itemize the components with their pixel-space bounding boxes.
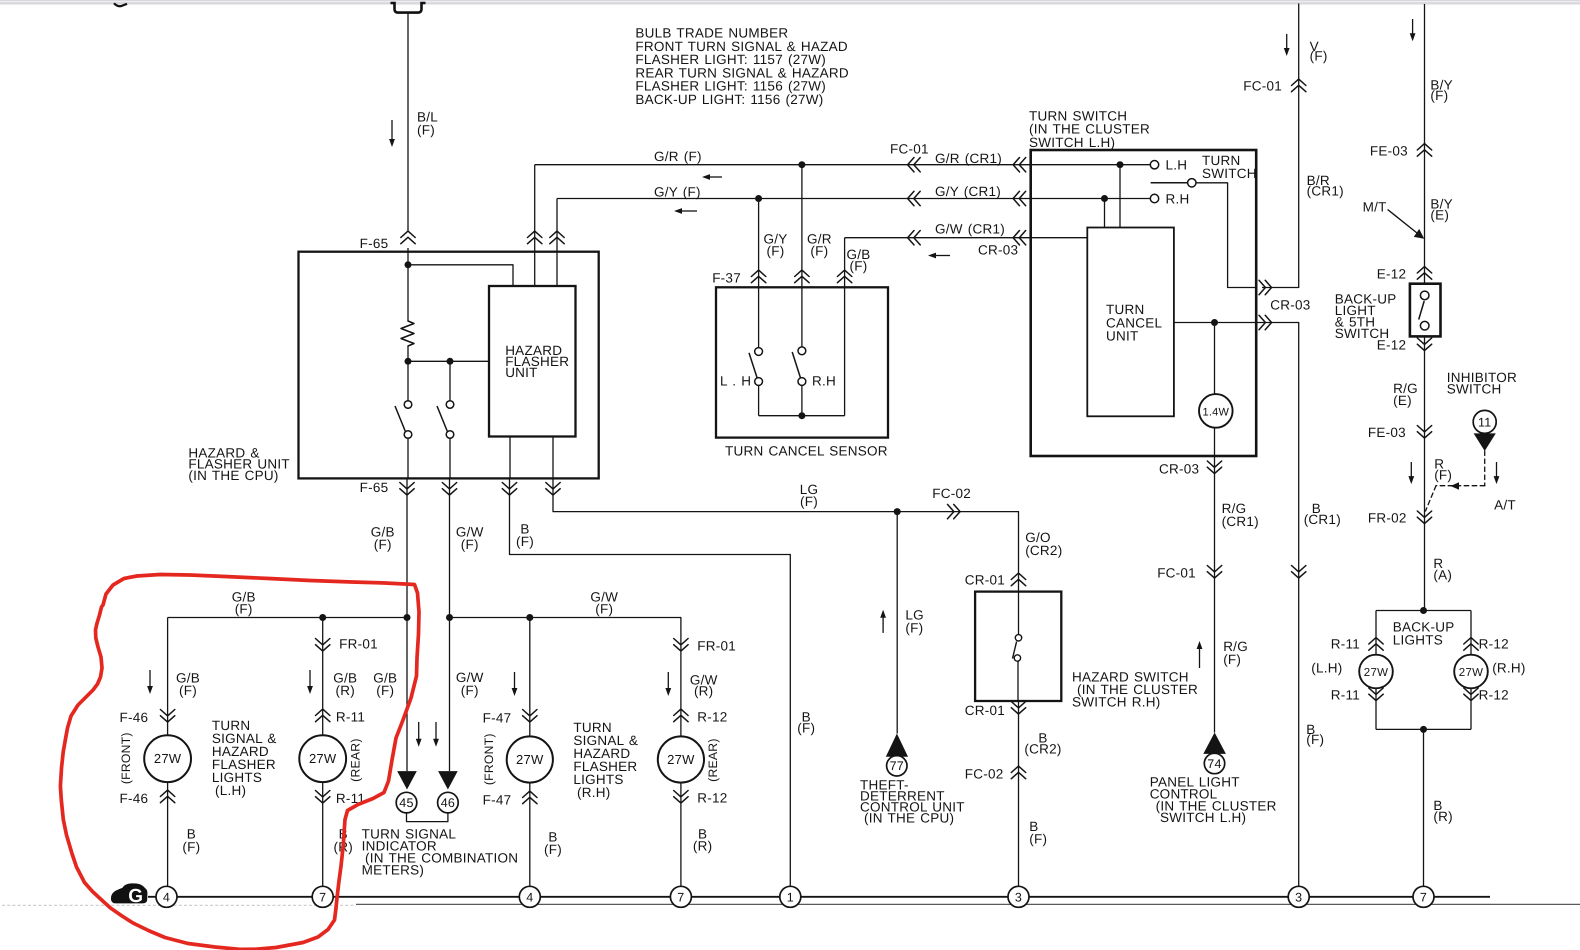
svg-text:(CR2): (CR2) (1025, 543, 1062, 558)
svg-text:F-46: F-46 (120, 791, 149, 806)
wire G/B up inside sensor (844, 287, 846, 415)
svg-text:(A): (A) (1433, 568, 1452, 583)
entry chevrons into turn switch on G/R (1013, 158, 1019, 172)
wire front R.H to ground (529, 783, 531, 887)
inhibitor triangle (1474, 433, 1496, 451)
wire front R.H light drop (529, 618, 531, 737)
flow arrows at inhibitor (1410, 462, 1412, 477)
stray mark top left (114, 3, 127, 6)
junction dot below resistor (405, 358, 412, 365)
svg-text:(F): (F) (417, 123, 435, 138)
connector chevrons R-12 backup top (1464, 638, 1478, 644)
connector chevrons R-11 below bulb (316, 791, 330, 797)
connector chevrons F-65 bottom LG (546, 483, 560, 489)
wire rear L.H light drop (322, 618, 324, 736)
svg-text:74: 74 (1207, 757, 1221, 771)
svg-text:(IN THE CPU): (IN THE CPU) (864, 811, 954, 826)
sensor common wire (759, 415, 845, 417)
wire G/Y drop to hazard flasher unit (556, 199, 558, 287)
flow arrow down rear L.H (309, 670, 311, 687)
turn switch lever (1151, 182, 1188, 184)
svg-text:F-47: F-47 (483, 710, 512, 725)
junction dot G/R to F-37 branch (798, 161, 805, 168)
svg-text:1: 1 (787, 890, 794, 904)
svg-text:(F): (F) (810, 244, 828, 259)
svg-text:UNIT: UNIT (505, 365, 538, 380)
svg-text:TURN CANCEL SENSOR: TURN CANCEL SENSOR (725, 443, 888, 458)
wire G/W (F) down from hazard unit (449, 478, 451, 617)
switch R.H in turn cancel sensor (801, 287, 803, 347)
svg-text:(F): (F) (516, 534, 534, 549)
connector chevrons F-65 on G/Y drop (550, 231, 564, 237)
turn cancel sensor box (716, 287, 888, 437)
svg-text:(E): (E) (1393, 393, 1412, 408)
bulb 1.4W in turn switch (1214, 323, 1216, 395)
flow arrow on B/L wire (391, 120, 393, 140)
junction dot back-up bottom (1420, 726, 1427, 733)
svg-text:(CR2): (CR2) (1024, 742, 1061, 757)
bulb back-up R.H 27W (1454, 655, 1488, 689)
wire back-up L.H drop (1375, 611, 1377, 655)
svg-text:F-65: F-65 (360, 480, 389, 495)
svg-text:27W: 27W (309, 751, 337, 766)
svg-text:(CR1): (CR1) (1304, 512, 1341, 527)
entry chevrons into turn switch on G/Y (1013, 191, 1019, 205)
svg-text:(R): (R) (336, 683, 356, 698)
page bottom hairline (2, 904, 356, 906)
connector chevrons R-11 above bulb (316, 709, 330, 715)
wire G/Y drop to turn cancel sensor (758, 199, 760, 288)
svg-text:G/R (F): G/R (F) (654, 149, 702, 164)
wire B (R) to ground 7 right (1423, 729, 1425, 886)
svg-text:(FRONT): (FRONT) (482, 733, 496, 785)
hazard flasher unit inner box (489, 286, 576, 437)
svg-text:77: 77 (890, 759, 904, 773)
junction dot G/W at front R.H drop (526, 614, 533, 621)
connector chevrons on B (CR1) (1292, 566, 1306, 572)
svg-text:F-47: F-47 (483, 792, 512, 807)
body ground icon G (111, 883, 148, 903)
inhibitor switch circle 11 (1473, 410, 1496, 433)
svg-text:27W: 27W (1364, 667, 1388, 679)
junction dot LG branch (894, 508, 901, 515)
flow arrow down front L.H (149, 670, 151, 687)
ground connector 3 right (1288, 886, 1309, 907)
svg-text:CR-01: CR-01 (965, 572, 1005, 587)
connector chevrons FC-02 on LG (948, 504, 954, 518)
svg-text:(F): (F) (374, 537, 392, 552)
svg-text:(R.H): (R.H) (1492, 661, 1526, 676)
junction dot at switch 2 top (447, 358, 454, 365)
wire G/R drop to turn cancel sensor (801, 165, 803, 288)
R.H contact circle (1150, 194, 1158, 202)
svg-text:UNIT: UNIT (1106, 329, 1139, 344)
svg-text:(R): (R) (693, 839, 713, 854)
wire front L.H light drop (167, 618, 169, 736)
hazard and flasher unit outer box (299, 252, 599, 479)
wire B/L feed vertical (407, 13, 409, 232)
junction dot G/B at indicator 45 (404, 614, 411, 621)
svg-text:(E): (E) (1430, 208, 1449, 223)
ground connector 1 (780, 886, 801, 907)
wire R/G (E) down (1424, 336, 1426, 610)
L.H contact circle (1150, 161, 1158, 169)
wire B (CR1) down to ground 3 (1298, 323, 1300, 887)
flow arrow down on V (F) (1286, 34, 1288, 49)
svg-text:R-11: R-11 (1331, 688, 1360, 703)
wire turn cancel unit output CR-03 (1174, 322, 1299, 324)
flow arrow up on LG (882, 617, 884, 633)
connector chevrons FE-03 mid (1417, 426, 1431, 432)
connector chevrons F-65 on supply wire (401, 231, 415, 237)
svg-text:(FRONT): (FRONT) (119, 732, 133, 784)
connector chevrons F-37 on G/R (795, 270, 809, 276)
indicator bracket wire (407, 813, 448, 822)
svg-text:F-37: F-37 (712, 271, 741, 286)
turn cancel unit box (1087, 228, 1174, 417)
hazard switch contacts (1018, 592, 1020, 635)
svg-text:L.H: L.H (1166, 158, 1188, 173)
svg-text:(F): (F) (461, 683, 479, 698)
indicator 45 triangle (397, 771, 417, 789)
svg-text:(F): (F) (461, 537, 479, 552)
svg-text:(CR1): (CR1) (1222, 514, 1259, 529)
switch 1 in hazard unit (407, 361, 409, 401)
bulb front R.H 27W (507, 736, 553, 782)
svg-text:1.4W: 1.4W (1202, 406, 1229, 418)
junction dot G/B at rear L.H drop (319, 614, 326, 621)
svg-text:46: 46 (441, 796, 455, 810)
svg-text:(F): (F) (797, 721, 815, 736)
bulb front L.H 27W (144, 735, 191, 782)
wire G/Y (F) horizontal (557, 198, 1151, 200)
wire G/B (F) down from hazard unit (406, 478, 408, 617)
wire resistor node to second switch and unit (408, 360, 489, 362)
junction dot G/W at indicator 46 (446, 614, 453, 621)
red hand-drawn highlight loop (60, 575, 419, 950)
entry chevrons into turn switch on G/W (1013, 231, 1019, 245)
connector chevrons CR-03 below box (1207, 461, 1221, 467)
svg-text:FC-02: FC-02 (932, 486, 971, 501)
wire B/Y vertical from top (1424, 4, 1426, 284)
connector chevrons FR-01 right (674, 639, 688, 645)
svg-text:4: 4 (526, 890, 533, 904)
svg-text:(REAR): (REAR) (706, 738, 720, 781)
ground connector 7 backup (1413, 886, 1434, 907)
svg-text:(F): (F) (182, 840, 200, 855)
switch L.H in turn cancel sensor (758, 287, 760, 347)
svg-text:G/Y (CR1): G/Y (CR1) (935, 184, 1001, 199)
connector chevrons FC-01 on G/W (908, 231, 914, 245)
connector chevrons CR-01 top (1011, 573, 1025, 579)
svg-text:(F): (F) (179, 683, 197, 698)
wire B (F) down then right (510, 478, 791, 886)
svg-text:CR-03: CR-03 (1159, 462, 1199, 477)
wire B/R (CR1) up to top (1298, 4, 1300, 288)
panel light control triangle 74 (1203, 733, 1226, 754)
connector chevrons R-12 backup bottom (1464, 688, 1478, 694)
back-up lights bottom rail (1376, 728, 1471, 730)
svg-text:CR-01: CR-01 (965, 703, 1005, 718)
wire G/R inside box to L.H contact (1117, 161, 1124, 168)
connector chevrons F-47 above bulb (523, 710, 537, 716)
indicator 45 circle (396, 792, 417, 813)
svg-text:E-12: E-12 (1377, 337, 1407, 352)
svg-text:27W: 27W (1459, 667, 1483, 679)
theft deterrent triangle 77 (886, 734, 908, 757)
flow arrow down on B/Y (1412, 19, 1414, 34)
ground connector 3 hazard switch (1008, 886, 1029, 907)
ground connector 4 front R.H (519, 886, 540, 907)
wire rear R.H light drop (680, 618, 682, 737)
connector chevrons FC-01 on G/R (908, 158, 914, 172)
connector chevrons E-12 bottom (1417, 338, 1431, 344)
flow arrow down front R.H (514, 672, 516, 689)
svg-text:(F): (F) (235, 602, 253, 617)
wire from L.H contact down to turn cancel unit (1119, 165, 1121, 228)
svg-text:G/Y (F): G/Y (F) (654, 185, 701, 200)
wire back-up L.H to bottom rail (1375, 688, 1377, 729)
svg-text:(F): (F) (1434, 468, 1452, 483)
svg-text:3: 3 (1295, 890, 1302, 904)
hazard unit output pins (509, 437, 511, 479)
bulb rear L.H 27W (299, 735, 346, 782)
svg-text:(F): (F) (1430, 88, 1448, 103)
wire R/G down from turn switch (1214, 456, 1216, 733)
flow arrow left under G/Y (681, 210, 697, 212)
svg-text:(IN THE CPU): (IN THE CPU) (188, 468, 278, 483)
svg-text:R-12: R-12 (1479, 637, 1509, 652)
svg-text:METERS): METERS) (362, 863, 425, 878)
turn switch box (1031, 150, 1257, 456)
svg-text:R.H: R.H (1166, 191, 1190, 206)
svg-text:(F): (F) (1029, 832, 1047, 847)
svg-text:FE-03: FE-03 (1370, 144, 1408, 159)
wire G/B drop to turn cancel sensor (844, 238, 846, 288)
connector chevrons FR-02 (1417, 511, 1431, 517)
wire to hazard flasher unit top pin (408, 265, 513, 286)
switch 2 in hazard unit (449, 361, 451, 401)
ground connector 7 rear R.H (670, 886, 691, 907)
svg-text:SWITCH: SWITCH (1447, 382, 1502, 397)
svg-text:FC-01: FC-01 (1243, 79, 1282, 94)
svg-text:7: 7 (319, 890, 326, 904)
svg-text:(L.H): (L.H) (1311, 661, 1342, 676)
connector chevrons FE-03 top (1417, 144, 1431, 150)
connector chevrons E-12 top (1417, 267, 1431, 273)
svg-text:FC-02: FC-02 (965, 766, 1004, 781)
svg-text:SWITCH L.H): SWITCH L.H) (1029, 135, 1115, 150)
svg-text:(F): (F) (905, 621, 923, 636)
flow arrows indicators (418, 722, 420, 740)
connector chevrons CR-01 bottom (1011, 702, 1025, 708)
resistor inside hazard unit (407, 265, 409, 321)
connector chevrons F-65 bottom B (502, 483, 516, 489)
svg-text:CR-03: CR-03 (1270, 298, 1310, 313)
switch contacts in E-12 box (1420, 291, 1429, 300)
svg-text:(R): (R) (694, 684, 714, 699)
flow arrow left under G/R (709, 176, 722, 178)
svg-text:27W: 27W (516, 752, 544, 767)
svg-text:3: 3 (1015, 890, 1022, 904)
svg-text:FR-01: FR-01 (697, 639, 736, 654)
svg-text:R.H: R.H (812, 374, 836, 389)
svg-text:G/W (CR1): G/W (CR1) (935, 222, 1005, 237)
wire from R.H contact down to turn cancel unit (1104, 199, 1106, 228)
connector chevrons F-37 on G/Y (751, 270, 765, 276)
connector chevrons R-12 below bulb (674, 791, 688, 797)
ground rail (148, 896, 1490, 898)
page top grey band (0, 0, 1580, 5)
wire CR-03 lever output (1259, 280, 1265, 294)
svg-text:F-46: F-46 (120, 710, 149, 725)
connector chevrons F-37 on G/B (837, 270, 851, 276)
wire back-up R.H drop (1470, 611, 1472, 655)
svg-text:SWITCH R.H): SWITCH R.H) (1072, 694, 1161, 709)
wire LG down to theft deterrent (896, 512, 898, 734)
connector chevrons F-65 bottom G/B (400, 483, 414, 489)
svg-text:(F): (F) (376, 683, 394, 698)
connector chevrons FC-01 on G/Y (908, 191, 914, 205)
connector chevrons FR-01 left (316, 639, 330, 645)
svg-text:SWITCH L.H): SWITCH L.H) (1160, 810, 1246, 825)
svg-text:(CR1): (CR1) (1307, 184, 1344, 199)
svg-text:4: 4 (163, 890, 170, 904)
connector chevrons R-11 backup top (1369, 638, 1383, 644)
svg-text:(R): (R) (1433, 809, 1453, 824)
svg-text:(F): (F) (850, 259, 868, 274)
svg-text:(F): (F) (1306, 732, 1324, 747)
svg-text:FC-01: FC-01 (890, 141, 929, 156)
flow arrow up on R/G (1199, 648, 1201, 668)
battery feed connector at top (391, 3, 426, 13)
svg-text:7: 7 (1420, 890, 1427, 904)
wire G/O (CR2) down to hazard switch (1018, 512, 1020, 592)
connector chevrons F-46 above bulb (160, 710, 174, 716)
svg-text:E-12: E-12 (1377, 267, 1407, 282)
svg-text:R-12: R-12 (697, 710, 727, 725)
connector chevrons FC-02 up style (1011, 766, 1025, 772)
wire G/W (F) horizontal to R.H lights (450, 617, 681, 619)
wire G/R drop to hazard flasher unit (534, 165, 536, 286)
flow arrow left under G/W (935, 255, 950, 257)
wire G/W (CR1) horizontal to turn cancel unit (845, 237, 1088, 239)
ground connector 4 front L.H (156, 886, 177, 907)
indicator 46 triangle (438, 771, 458, 789)
wire rear L.H to ground (322, 782, 324, 886)
svg-text:45: 45 (399, 796, 413, 810)
wire supply into box (407, 248, 409, 265)
svg-text:FC-01: FC-01 (1157, 565, 1196, 580)
svg-text:R-11: R-11 (1331, 637, 1360, 652)
ground connector 7 rear L.H (312, 886, 333, 907)
inhibitor dashed wire (1484, 451, 1486, 486)
wire G/B (F) horizontal to L.H lights (168, 617, 407, 619)
junction dot supply (405, 261, 412, 268)
svg-text:(F): (F) (544, 842, 562, 857)
junction dot G/Y to F-37 branch (755, 195, 762, 202)
svg-text:FE-03: FE-03 (1368, 425, 1406, 440)
svg-text:G: G (128, 886, 143, 907)
svg-text:R-11: R-11 (336, 710, 365, 725)
svg-text:CR-03: CR-03 (978, 243, 1018, 258)
svg-text:FR-01: FR-01 (339, 637, 378, 652)
svg-text:(R.H): (R.H) (577, 785, 611, 800)
svg-text:27W: 27W (667, 752, 695, 767)
svg-text:M/T: M/T (1363, 200, 1387, 215)
wire back-up R.H to bottom rail (1470, 688, 1472, 729)
indicator 46 circle (438, 792, 459, 813)
svg-text:L . H: L . H (720, 374, 751, 389)
connector chevrons FC-01 on R/G (1207, 566, 1221, 572)
svg-text:G/R (CR1): G/R (CR1) (935, 151, 1002, 166)
wire front L.H to ground (167, 782, 169, 886)
svg-text:(L.H): (L.H) (215, 783, 246, 798)
back-up lights top rail (1376, 610, 1471, 612)
svg-text:7: 7 (677, 890, 684, 904)
flow arrow down rear R.H (667, 672, 669, 689)
junction dot sensor common (798, 412, 805, 419)
connector chevrons F-65 on G/R drop (528, 231, 542, 237)
connector chevrons F-65 bottom G/W (442, 483, 456, 489)
svg-text:(F): (F) (767, 244, 785, 259)
svg-text:(REAR): (REAR) (349, 738, 363, 781)
svg-text:F-65: F-65 (360, 236, 389, 251)
svg-text:R-12: R-12 (697, 791, 727, 806)
connector chevrons F-47 below bulb (523, 791, 537, 797)
svg-text:BACK-UP LIGHT: 1156 (27W): BACK-UP LIGHT: 1156 (27W) (635, 92, 823, 107)
svg-text:LIGHTS: LIGHTS (1393, 633, 1443, 648)
svg-text:11: 11 (1478, 415, 1491, 429)
connector chevrons FC-01 on B/R (1292, 79, 1306, 85)
svg-text:(F): (F) (595, 602, 613, 617)
bulb back-up L.H 27W (1359, 655, 1393, 689)
connector chevrons R-12 above bulb (674, 709, 688, 715)
junction dot back-up lights top (1420, 607, 1427, 614)
wire LG (F) down then right (553, 478, 1019, 511)
connector chevrons R-11 backup bottom (1369, 688, 1383, 694)
wire G/Y inside box to R.H contact (1101, 195, 1108, 202)
wire B (CR2) down (1018, 701, 1020, 886)
svg-text:(F): (F) (1223, 652, 1241, 667)
wire G/R (F) horizontal (535, 164, 1151, 166)
svg-text:R-12: R-12 (1479, 688, 1509, 703)
connector chevrons F-46 below bulb (160, 790, 174, 796)
svg-text:(F): (F) (1310, 49, 1328, 64)
wire indicator 46 drop (449, 618, 451, 772)
svg-text:FR-02: FR-02 (1368, 511, 1407, 526)
svg-text:A/T: A/T (1494, 498, 1516, 513)
bulb rear R.H 27W (658, 736, 704, 782)
back-up light and 5th switch box E-12 (1410, 284, 1441, 337)
svg-text:SWITCH: SWITCH (1202, 166, 1257, 181)
hazard switch box (975, 592, 1061, 701)
svg-text:27W: 27W (154, 751, 182, 766)
wire indicator 45 drop (406, 618, 408, 772)
svg-text:(F): (F) (800, 494, 818, 509)
wire rear R.H to ground (680, 783, 682, 887)
